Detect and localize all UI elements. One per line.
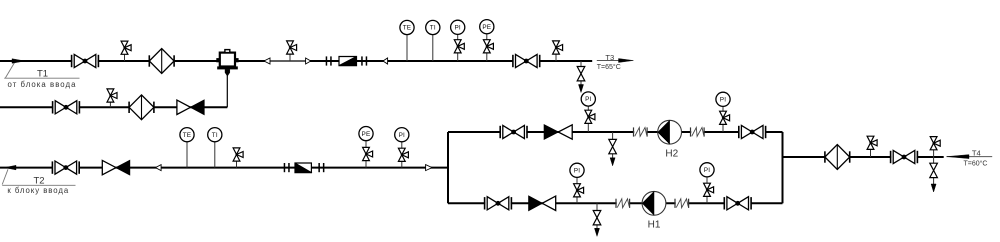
svg-text:от блока ввода: от блока ввода <box>7 80 76 89</box>
svg-text:TI: TI <box>212 132 218 139</box>
svg-text:PI: PI <box>574 168 580 175</box>
svg-text:PI: PI <box>720 97 726 104</box>
svg-text:Т=65°С: Т=65°С <box>597 63 621 71</box>
svg-text:Т2: Т2 <box>33 176 44 187</box>
svg-text:Т=60°С: Т=60°С <box>963 159 987 167</box>
svg-text:PI: PI <box>399 132 405 139</box>
svg-text:Н2: Н2 <box>665 148 678 159</box>
svg-text:TE: TE <box>403 25 412 32</box>
svg-text:PI: PI <box>454 25 460 32</box>
svg-text:PI: PI <box>704 167 710 174</box>
svg-text:TI: TI <box>430 25 436 32</box>
svg-text:к блоку ввода: к блоку ввода <box>7 186 69 195</box>
svg-text:PE: PE <box>362 131 371 138</box>
svg-text:PI: PI <box>585 96 591 103</box>
svg-text:Т1: Т1 <box>37 69 48 80</box>
svg-text:Н1: Н1 <box>648 219 661 230</box>
svg-text:PE: PE <box>482 24 491 31</box>
svg-text:Т3: Т3 <box>605 53 614 62</box>
svg-text:Т4: Т4 <box>972 149 981 158</box>
svg-text:TE: TE <box>183 132 192 139</box>
